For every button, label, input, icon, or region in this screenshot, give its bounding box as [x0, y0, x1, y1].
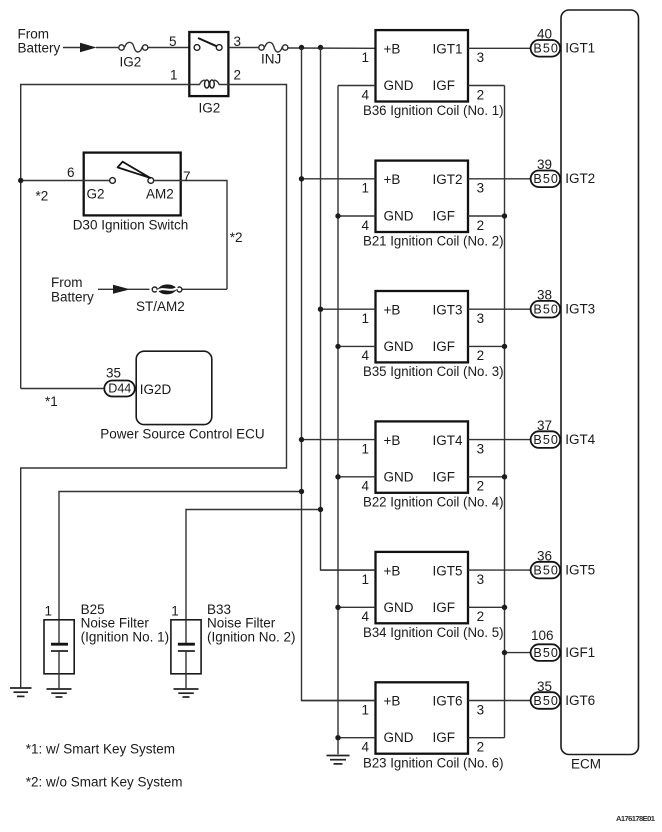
- noise filter B33 box: [171, 620, 201, 674]
- capacitor B25: [51, 620, 68, 688]
- ground: relay coil ground: [10, 688, 32, 696]
- connector B50 (IGT2 row): [531, 171, 561, 188]
- node: IGF tap coil 2: [502, 213, 507, 218]
- svg-text:A176178E01: A176178E01: [616, 814, 656, 823]
- svg-text:2: 2: [477, 479, 485, 494]
- svg-text:1: 1: [171, 604, 179, 619]
- svg-text:IGF: IGF: [433, 209, 456, 224]
- svg-text:3: 3: [477, 50, 485, 65]
- svg-text:GND: GND: [384, 469, 414, 484]
- svg-text:IGT1: IGT1: [433, 42, 463, 57]
- wire: coil 4 IGF to IGF bus: [468, 476, 505, 478]
- svg-text:+B: +B: [384, 302, 401, 317]
- svg-text:*1: *1: [45, 394, 58, 409]
- node: +B tap coil 4: [299, 437, 304, 442]
- svg-text:IG2: IG2: [199, 101, 221, 116]
- svg-text:4: 4: [362, 740, 370, 755]
- svg-text:+B: +B: [384, 563, 401, 578]
- connector B50 (IGT4 row): [531, 431, 561, 448]
- svg-text:IGT5: IGT5: [433, 563, 463, 578]
- arrow: battery feed: [80, 43, 97, 52]
- wire: relay pin 1 to left bus: [21, 85, 190, 389]
- wire: coil 6 IGF to IGF bus: [468, 737, 505, 739]
- wire: arrow to fusible link: [128, 288, 150, 290]
- svg-text:GND: GND: [384, 600, 414, 615]
- ignition coil B35 box (No. 3): [376, 291, 469, 362]
- wire: coil 4 IGT to ECM: [468, 439, 531, 441]
- svg-text:1: 1: [362, 50, 370, 65]
- wire: coil 2 IGF to IGF bus: [468, 215, 505, 217]
- IGF bus vertical: [504, 86, 506, 738]
- connector D44 oval: [104, 381, 135, 397]
- GND bus vertical: [337, 86, 339, 755]
- svg-text:1: 1: [45, 604, 53, 619]
- wire: +B bus to coil 3 pin 1: [321, 308, 376, 310]
- ignition coil B36 box (No. 1): [376, 30, 469, 101]
- wire: coil 3 IGF to IGF bus: [468, 345, 505, 347]
- node: GND tap coil 6: [335, 735, 340, 740]
- svg-text:From: From: [18, 27, 50, 42]
- svg-text:3: 3: [477, 702, 485, 717]
- label B33 Noise Filter (Ignition No. 2): [207, 602, 296, 645]
- svg-text:36: 36: [537, 549, 552, 564]
- svg-text:2: 2: [477, 609, 485, 624]
- wire: coil 1 IGT to ECM: [468, 47, 531, 49]
- wire: relay pin 2 down to ground: [21, 85, 287, 689]
- svg-text:B21 Ignition Coil (No. 2): B21 Ignition Coil (No. 2): [363, 234, 504, 249]
- svg-text:INJ: INJ: [261, 52, 281, 67]
- wire: coil 3 GND to GND bus: [338, 345, 376, 347]
- svg-text:5: 5: [169, 34, 177, 49]
- node: B33 junction on +B bus B: [318, 507, 323, 512]
- svg-text:39: 39: [537, 157, 552, 172]
- wire: coil 1 IGF to IGF bus: [468, 85, 505, 87]
- wire: coil 5 IGT to ECM: [468, 569, 531, 571]
- node: IGF tap coil 4: [502, 474, 507, 479]
- svg-text:Noise Filter: Noise Filter: [207, 616, 276, 631]
- wire: battery feed arrow line (ST/AM2): [98, 288, 118, 290]
- svg-text:IGF: IGF: [433, 730, 456, 745]
- wire: relay pin 3 to fuse INJ: [228, 47, 258, 49]
- svg-text:1: 1: [362, 572, 370, 587]
- svg-text:35: 35: [537, 679, 552, 694]
- node: +B bus A tap: [299, 45, 304, 50]
- svg-text:B50: B50: [533, 646, 558, 660]
- svg-text:B34 Ignition Coil (No. 5): B34 Ignition Coil (No. 5): [363, 625, 504, 640]
- svg-text:GND: GND: [384, 730, 414, 745]
- ignition coil B23 box (No. 6): [376, 682, 469, 753]
- node: GND tap coil 4: [335, 474, 340, 479]
- node: G2 branch on left bus: [18, 178, 23, 183]
- fuse INJ: [259, 42, 288, 66]
- svg-text:B50: B50: [533, 564, 558, 578]
- power source control ECU box: [136, 351, 212, 424]
- svg-text:1: 1: [362, 702, 370, 717]
- svg-text:1: 1: [170, 68, 178, 83]
- svg-text:1: 1: [362, 181, 370, 196]
- svg-text:B36 Ignition Coil (No. 1): B36 Ignition Coil (No. 1): [363, 103, 504, 118]
- node: IGF1 tap: [502, 650, 507, 655]
- svg-text:3: 3: [234, 34, 242, 49]
- wire: coil 3 IGT to ECM: [468, 308, 531, 310]
- svg-text:IGT4: IGT4: [433, 433, 463, 448]
- wire: coil 5 IGF to IGF bus: [468, 606, 505, 608]
- svg-text:G2: G2: [87, 187, 105, 202]
- connector B50 (IGT5 row): [531, 562, 561, 579]
- svg-text:IGT4: IGT4: [565, 432, 595, 447]
- ignition switch D30 box: [84, 153, 181, 216]
- ECM box: [561, 10, 639, 755]
- svg-text:GND: GND: [384, 78, 414, 93]
- wire: left bus to D44: [21, 388, 105, 390]
- svg-text:IGT2: IGT2: [433, 172, 463, 187]
- svg-text:IG2D: IG2D: [140, 382, 172, 397]
- svg-text:IGF: IGF: [433, 600, 456, 615]
- svg-text:IGF: IGF: [433, 469, 456, 484]
- svg-text:B35 Ignition Coil (No. 3): B35 Ignition Coil (No. 3): [363, 364, 504, 379]
- node: GND tap coil 5: [335, 605, 340, 610]
- wire: +B bus to coil 2 pin 1: [302, 178, 376, 180]
- svg-text:IGT6: IGT6: [433, 694, 463, 709]
- svg-text:B25: B25: [81, 602, 105, 617]
- wire: noise filter B25 riser: [59, 492, 302, 620]
- node: GND tap coil 3: [335, 344, 340, 349]
- svg-text:D44: D44: [108, 382, 131, 396]
- ground: B33: [174, 689, 199, 697]
- svg-text:35: 35: [106, 366, 121, 381]
- svg-text:+B: +B: [384, 694, 401, 709]
- node: +B tap coil 2: [299, 176, 304, 181]
- ignition coil B22 box (No. 4): [376, 421, 469, 492]
- svg-text:4: 4: [362, 479, 370, 494]
- node: +B tap coil 3: [318, 307, 323, 312]
- wire: coil 4 GND to GND bus: [338, 476, 376, 478]
- svg-text:2: 2: [234, 68, 242, 83]
- svg-text:Battery: Battery: [51, 290, 94, 305]
- connector B50 (IGF1 row): [531, 644, 561, 661]
- wire: +B bus A vertical (feeds coils 2,4,6): [302, 48, 376, 701]
- svg-text:4: 4: [362, 609, 370, 624]
- svg-text:2: 2: [477, 348, 485, 363]
- wire: coil 2 GND to GND bus: [338, 215, 376, 217]
- ground: GND bus: [327, 756, 350, 764]
- svg-text:+B: +B: [384, 42, 401, 57]
- wire: left bus to G2: [21, 180, 110, 182]
- wire: fuse IG2 to relay pin 5: [148, 47, 189, 49]
- wire: +B bus to coil 5 pin 1: [321, 569, 376, 571]
- wire: +B bus to coil 4 pin 1: [302, 439, 376, 441]
- wire: coil 5 GND to GND bus: [338, 606, 376, 608]
- svg-text:IGT3: IGT3: [565, 302, 595, 317]
- svg-text:2: 2: [477, 218, 485, 233]
- svg-text:Power Source Control ECU: Power Source Control ECU: [100, 427, 264, 442]
- wire: coil 6 GND to GND bus: [338, 737, 376, 739]
- connector B50 (IGT3 row): [531, 301, 561, 318]
- svg-text:GND: GND: [384, 209, 414, 224]
- svg-text:B33: B33: [207, 602, 231, 617]
- wire: coil 2 IGT to ECM: [468, 178, 531, 180]
- svg-text:106: 106: [531, 628, 554, 643]
- svg-text:40: 40: [537, 27, 552, 42]
- node: IGF tap coil 3: [502, 344, 507, 349]
- svg-text:IGT5: IGT5: [565, 563, 595, 578]
- fuse IG2: [119, 42, 148, 69]
- svg-text:4: 4: [362, 348, 370, 363]
- relay IG2 coil: [189, 80, 228, 88]
- svg-text:2: 2: [477, 87, 485, 102]
- svg-text:B50: B50: [533, 433, 558, 447]
- terminal G2: [110, 178, 116, 184]
- svg-text:IGT1: IGT1: [565, 41, 595, 56]
- noise filter B25 box: [44, 620, 74, 674]
- svg-text:*2: w/o Smart Key System: *2: w/o Smart Key System: [26, 775, 183, 790]
- fusible link ST/AM2: [136, 284, 185, 314]
- key lever: [118, 162, 151, 178]
- terminal AM2: [148, 178, 154, 184]
- label "From Battery" (ST/AM2): [51, 275, 94, 305]
- svg-text:IGT2: IGT2: [565, 171, 595, 186]
- label B25 Noise Filter (Ignition No. 1): [81, 602, 170, 645]
- svg-text:4: 4: [362, 218, 370, 233]
- svg-text:B50: B50: [533, 303, 558, 317]
- svg-text:*2: *2: [36, 189, 49, 204]
- wire: fuse INJ to coil 1 +B (top feed): [288, 47, 375, 49]
- svg-text:IGF1: IGF1: [565, 645, 595, 660]
- svg-text:B50: B50: [533, 42, 558, 56]
- node: IGF tap coil 5: [502, 605, 507, 610]
- svg-text:B50: B50: [533, 694, 558, 708]
- svg-text:IGT6: IGT6: [565, 693, 595, 708]
- svg-text:4: 4: [362, 87, 370, 102]
- arrow: battery feed (ST/AM2): [113, 285, 130, 294]
- wire: coil 6 IGT to ECM: [468, 700, 531, 702]
- ignition coil B21 box (No. 2): [376, 161, 469, 232]
- svg-text:ECM: ECM: [571, 757, 601, 772]
- wire: AM2 to right drop: [154, 181, 227, 290]
- svg-text:Battery: Battery: [18, 41, 61, 56]
- ground: B25: [47, 689, 72, 697]
- svg-text:Noise Filter: Noise Filter: [81, 616, 150, 631]
- wire: battery feed arrow line: [63, 47, 86, 49]
- svg-text:+B: +B: [384, 172, 401, 187]
- svg-text:3: 3: [477, 181, 485, 196]
- relay IG2 box: [189, 32, 228, 96]
- svg-text:*1: w/ Smart Key System: *1: w/ Smart Key System: [26, 742, 175, 757]
- connector B50 (IGT1 row): [531, 40, 561, 57]
- node: GND tap coil 2: [335, 213, 340, 218]
- svg-text:(Ignition No. 2): (Ignition No. 2): [207, 630, 296, 645]
- svg-text:ST/AM2: ST/AM2: [136, 299, 185, 314]
- node: +B bus B tap: [318, 45, 323, 50]
- svg-text:2: 2: [477, 740, 485, 755]
- svg-text:IGF: IGF: [433, 78, 456, 93]
- svg-text:From: From: [51, 275, 83, 290]
- svg-text:37: 37: [537, 418, 552, 433]
- svg-text:B22 Ignition Coil (No. 4): B22 Ignition Coil (No. 4): [363, 495, 504, 510]
- svg-text:B23 Ignition Coil (No. 6): B23 Ignition Coil (No. 6): [363, 755, 504, 770]
- svg-text:3: 3: [477, 311, 485, 326]
- svg-text:1: 1: [362, 441, 370, 456]
- svg-text:AM2: AM2: [146, 187, 174, 202]
- wire: coil 1 GND to GND bus: [338, 85, 376, 87]
- ignition coil B34 box (No. 5): [376, 552, 469, 623]
- node: B25 junction on +B bus A: [299, 489, 304, 494]
- svg-text:D30 Ignition Switch: D30 Ignition Switch: [73, 218, 189, 233]
- svg-text:3: 3: [477, 441, 485, 456]
- svg-text:(Ignition No. 1): (Ignition No. 1): [81, 630, 170, 645]
- wire: +B bus B vertical (feeds coils 3,5): [321, 48, 376, 570]
- svg-text:IG2: IG2: [120, 55, 142, 70]
- wire: noise filter B33 riser: [186, 510, 321, 620]
- label "From Battery" (top): [18, 27, 61, 56]
- wire: IGF bus to B50 IGF1: [505, 652, 531, 654]
- svg-text:1: 1: [362, 311, 370, 326]
- wire: arrow to fuse IG2: [96, 47, 118, 49]
- svg-text:+B: +B: [384, 433, 401, 448]
- relay IG2 switch contacts: [194, 38, 222, 50]
- svg-text:3: 3: [477, 572, 485, 587]
- capacitor B33: [178, 620, 195, 688]
- svg-text:IGT3: IGT3: [433, 302, 463, 317]
- svg-text:*2: *2: [230, 230, 243, 245]
- wire: +B bus to coil 6 pin 1: [302, 700, 376, 702]
- svg-text:B50: B50: [533, 172, 558, 186]
- svg-text:7: 7: [183, 169, 191, 184]
- connector B50 (IGT6 row): [531, 692, 561, 709]
- svg-text:6: 6: [67, 165, 75, 180]
- wire: fusible link to AM2 drop: [182, 288, 227, 290]
- svg-text:38: 38: [537, 288, 552, 303]
- svg-text:GND: GND: [384, 339, 414, 354]
- svg-text:IGF: IGF: [433, 339, 456, 354]
